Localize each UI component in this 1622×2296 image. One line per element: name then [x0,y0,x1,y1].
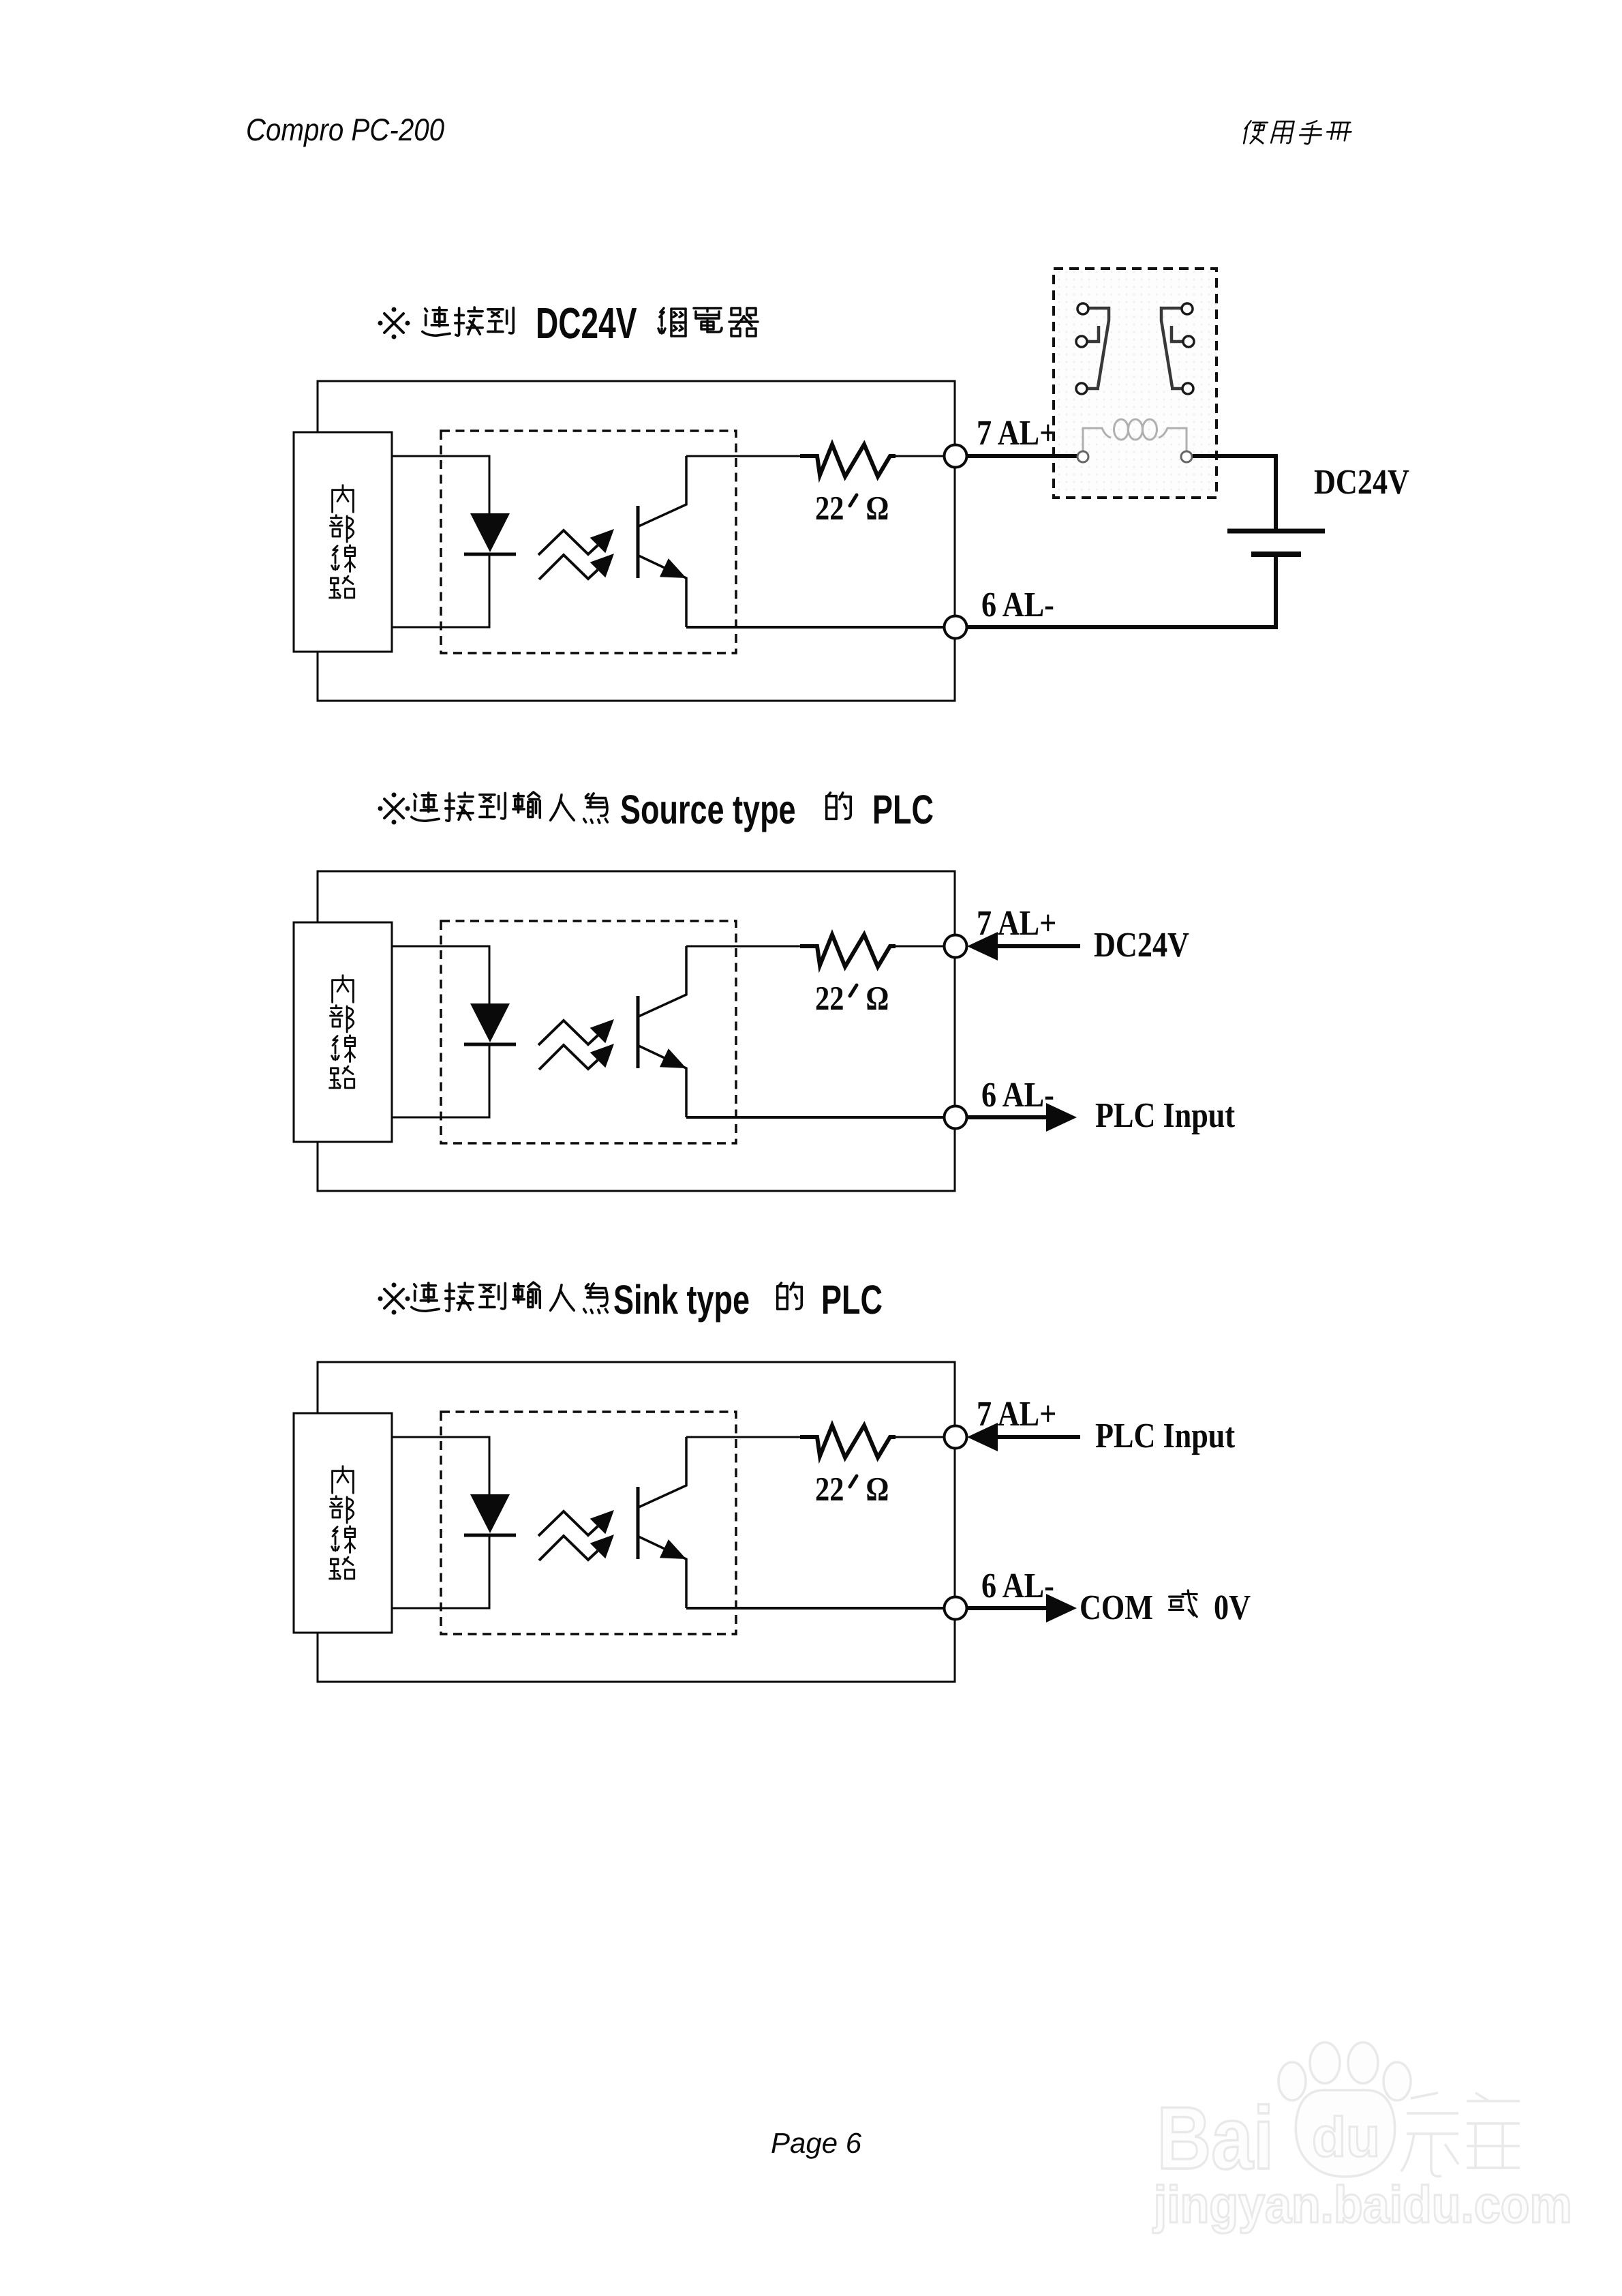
label 內部線路 (internal circuit, diagram 1) [330,485,355,598]
wire from LED cathode to internal box (diagram 2) [392,1044,489,1117]
light emission arrow 1 (diagram 3) [538,1510,614,1536]
terminal 6 AL- node (diagram 1) [945,616,967,639]
opto-coupler U2 dashed package box [441,921,736,1143]
section title 2: ※連接到輸入爲 Source type 的 PLC [378,787,934,832]
internal circuit box U3a (內部線路) [294,1413,392,1633]
phototransistor Q2 base bar [637,996,640,1068]
wire from LED cathode to internal box (diagram 1) [392,554,489,627]
wire outer loop rectangle (diagram 2) [318,871,955,1191]
battery BT1 DC24V positive plate [1227,529,1325,534]
pin label 7 AL+ (diagram 3) [977,1395,1056,1434]
svg-text:COM: COM [1080,1588,1153,1627]
light emission arrow 2 (diagram 3) [539,1535,614,1560]
wire emitter to terminal 6 (diagram 2) [686,1116,955,1119]
pin label 6 AL- (diagram 3) [981,1567,1054,1605]
svg-text:Source type: Source type [620,787,796,832]
value label 22 ohm (diagram 3) [815,1470,889,1508]
footer page number Page 6 [771,2127,862,2159]
wire from LED cathode to internal box (diagram 3) [392,1535,489,1608]
internal circuit box U1a (內部線路) [294,432,392,652]
wire resistor to terminal 7 (diagram 2) [896,946,955,948]
light emission arrow 1 (diagram 2) [538,1019,614,1045]
arrow DC24V into terminal 7 (diagram 2) [967,932,1080,961]
terminal 6 AL- node (diagram 2) [945,1106,967,1129]
light emission arrow 2 (diagram 1) [539,554,614,579]
wire resistor to terminal 7 (diagram 3) [896,1436,955,1438]
opto-coupler U3 dashed package box [441,1412,736,1634]
svg-text:Compro PC-200: Compro PC-200 [246,112,445,147]
wire emitter to terminal 6 (diagram 3) [686,1607,955,1610]
arrow terminal 6 to COM (diagram 3) [967,1594,1077,1622]
section title 3: ※連接到輸入爲 Sink type 的 PLC [378,1277,883,1323]
phototransistor Q3 emitter with arrow [639,1537,686,1608]
pin label 6 AL- (diagram 1) [981,586,1054,624]
value label 22 ohm (diagram 2) [815,979,889,1017]
phototransistor Q2 emitter with arrow [639,1046,686,1117]
label 內部線路 (internal circuit, diagram 3) [330,1466,355,1579]
terminal 6 AL- node (diagram 3) [945,1597,967,1620]
label DC24V source (diagram 2) [1094,926,1189,965]
relay K1 left contact set [1076,303,1109,394]
wire outer loop rectangle (diagram 1) [318,381,955,701]
opto-coupler U1 dashed package box [441,431,736,653]
svg-text:0V: 0V [1214,1588,1251,1627]
label PLC Input (diagram 3) [1095,1417,1236,1455]
relay K1 right contact set [1161,303,1194,394]
phototransistor Q1 base bar [637,506,640,578]
svg-text:PLC Input: PLC Input [1095,1096,1236,1135]
arrow PLC input into terminal 7 (diagram 3) [967,1423,1080,1451]
label COM 或 0V (diagram 3) [1080,1588,1251,1627]
wire collector to resistor (diagram 3) [686,1436,800,1438]
phototransistor Q3 collector [639,1437,686,1507]
terminal 7 AL+ node (diagram 3) [945,1426,967,1449]
svg-text:jingyan.baidu.com: jingyan.baidu.com [1152,2176,1572,2234]
value label 22 ohm (diagram 1) [815,489,889,527]
terminal 7 AL+ node (diagram 1) [945,445,967,468]
pin label 6 AL- (diagram 2) [981,1076,1054,1115]
svg-text:7 AL+: 7 AL+ [977,414,1056,453]
svg-text:Bai: Bai [1157,2088,1274,2188]
wire from internal box to LED anode (diagram 1) [392,456,489,513]
wire collector to resistor (diagram 2) [686,946,800,948]
svg-text:Page 6: Page 6 [771,2127,862,2159]
light emission arrow 2 (diagram 2) [539,1044,614,1070]
svg-text:6 AL-: 6 AL- [981,1567,1054,1605]
wire from internal box to LED anode (diagram 3) [392,1437,489,1494]
relay K1 dashed outline box with dotted fill [1054,269,1216,498]
svg-text:DC24V: DC24V [1314,463,1409,502]
watermark Baidu Jingyan logo [1152,2042,1572,2234]
svg-text:22 Ω: 22 Ω [815,489,889,527]
svg-text:22 Ω: 22 Ω [815,1470,889,1508]
resistor R2 22 ohm zigzag [800,935,896,967]
resistor R3 22 ohm zigzag [800,1425,896,1457]
svg-text:6 AL-: 6 AL- [981,586,1054,624]
phototransistor Q1 emitter with arrow [639,556,686,627]
arrow terminal 6 to PLC input (diagram 2) [967,1103,1077,1132]
LED D1 (opto emitter diode) [464,513,516,554]
label PLC Input (diagram 2) [1095,1096,1236,1135]
resistor R1 22 ohm zigzag [800,444,896,477]
wire emitter to terminal 6 (diagram 1) [686,626,955,629]
battery BT1 negative plate [1251,552,1301,557]
wire collector to resistor (diagram 1) [686,455,800,457]
label DC24V battery [1314,463,1409,502]
wire from internal box to LED anode (diagram 2) [392,946,489,1003]
LED D2 (opto emitter diode) [464,1003,516,1044]
svg-text:du: du [1312,2106,1380,2169]
header running title 使用手冊 (user manual) [1242,121,1353,144]
wire battery negative to terminal 6 [967,557,1276,627]
section title 1: ※ 連接到 DC24V 繼電器 (connect to DC24V relay) [378,299,759,348]
wire outer loop rectangle (diagram 3) [318,1362,955,1682]
relay K1 coil [1077,419,1192,462]
svg-text:PLC Input: PLC Input [1095,1417,1236,1455]
svg-text:DC24V: DC24V [536,299,637,348]
LED D3 (opto emitter diode) [464,1494,516,1535]
svg-text:Sink type: Sink type [613,1277,750,1323]
phototransistor Q2 collector [639,946,686,1016]
svg-text:DC24V: DC24V [1094,926,1189,965]
svg-text:PLC: PLC [872,787,934,832]
wire terminal 7 to relay coil [966,454,1077,458]
wire relay coil to battery positive [1193,456,1276,529]
phototransistor Q1 collector [639,456,686,526]
svg-text:22 Ω: 22 Ω [815,979,889,1017]
svg-text:PLC: PLC [821,1277,883,1323]
phototransistor Q3 base bar [637,1487,640,1559]
terminal 7 AL+ node (diagram 2) [945,935,967,958]
svg-text:6 AL-: 6 AL- [981,1076,1054,1115]
internal circuit box U2a (內部線路) [294,922,392,1142]
header running title Compro PC-200 [246,112,445,147]
pin label 7 AL+ (diagram 2) [977,904,1056,943]
light emission arrow 1 (diagram 1) [538,529,614,555]
label 內部線路 (internal circuit, diagram 2) [330,976,355,1088]
wire resistor to terminal 7 (diagram 1) [896,455,955,457]
pin label 7 AL+ (diagram 1) [977,414,1056,453]
